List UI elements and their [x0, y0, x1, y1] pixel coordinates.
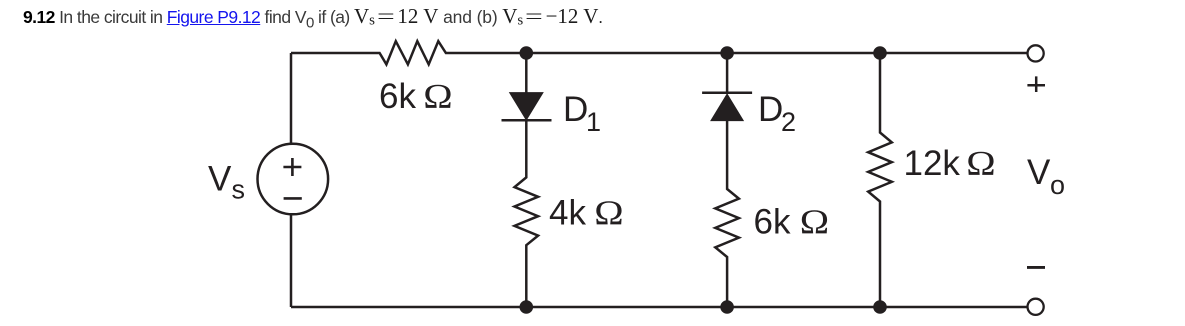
svg-text:s: s	[232, 175, 246, 205]
svg-text:V: V	[208, 159, 232, 198]
svg-text:6k: 6k	[379, 77, 416, 116]
svg-text:D: D	[758, 90, 783, 129]
svg-text:D: D	[563, 90, 588, 129]
svg-text:6k: 6k	[754, 203, 791, 242]
svg-text:Ω: Ω	[594, 195, 623, 233]
svg-text:2: 2	[781, 107, 796, 137]
svg-text:12k: 12k	[904, 144, 961, 183]
svg-text:4k: 4k	[549, 194, 586, 233]
svg-text:Ω: Ω	[800, 204, 829, 242]
svg-text:Ω: Ω	[966, 145, 995, 183]
svg-text:o: o	[1050, 170, 1065, 200]
svg-text:V: V	[1027, 153, 1051, 192]
svg-text:1: 1	[586, 107, 601, 137]
svg-text:Ω: Ω	[423, 78, 452, 116]
